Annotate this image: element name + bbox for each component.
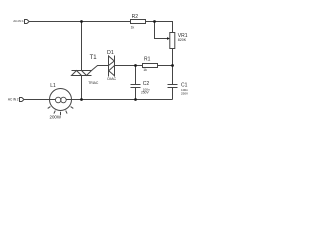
svg-text:820K: 820K (178, 38, 187, 42)
svg-text:DIAC: DIAC (107, 77, 116, 81)
svg-text:250V: 250V (181, 91, 189, 95)
svg-text:1k: 1k (131, 25, 135, 29)
svg-text:AC-IN 1: AC-IN 1 (13, 19, 24, 23)
svg-text:D1: D1 (107, 50, 114, 56)
svg-text:R2: R2 (132, 14, 139, 20)
svg-text:200W: 200W (50, 115, 62, 120)
svg-text:1k: 1k (143, 68, 147, 72)
svg-text:250V: 250V (141, 91, 150, 95)
svg-text:C2: C2 (143, 81, 150, 87)
svg-text:TRIAC: TRIAC (88, 81, 99, 85)
svg-text:L1: L1 (50, 83, 56, 89)
svg-text:AC IN 2: AC IN 2 (8, 97, 19, 101)
svg-text:T1: T1 (90, 55, 98, 61)
svg-text:R1: R1 (144, 57, 151, 63)
